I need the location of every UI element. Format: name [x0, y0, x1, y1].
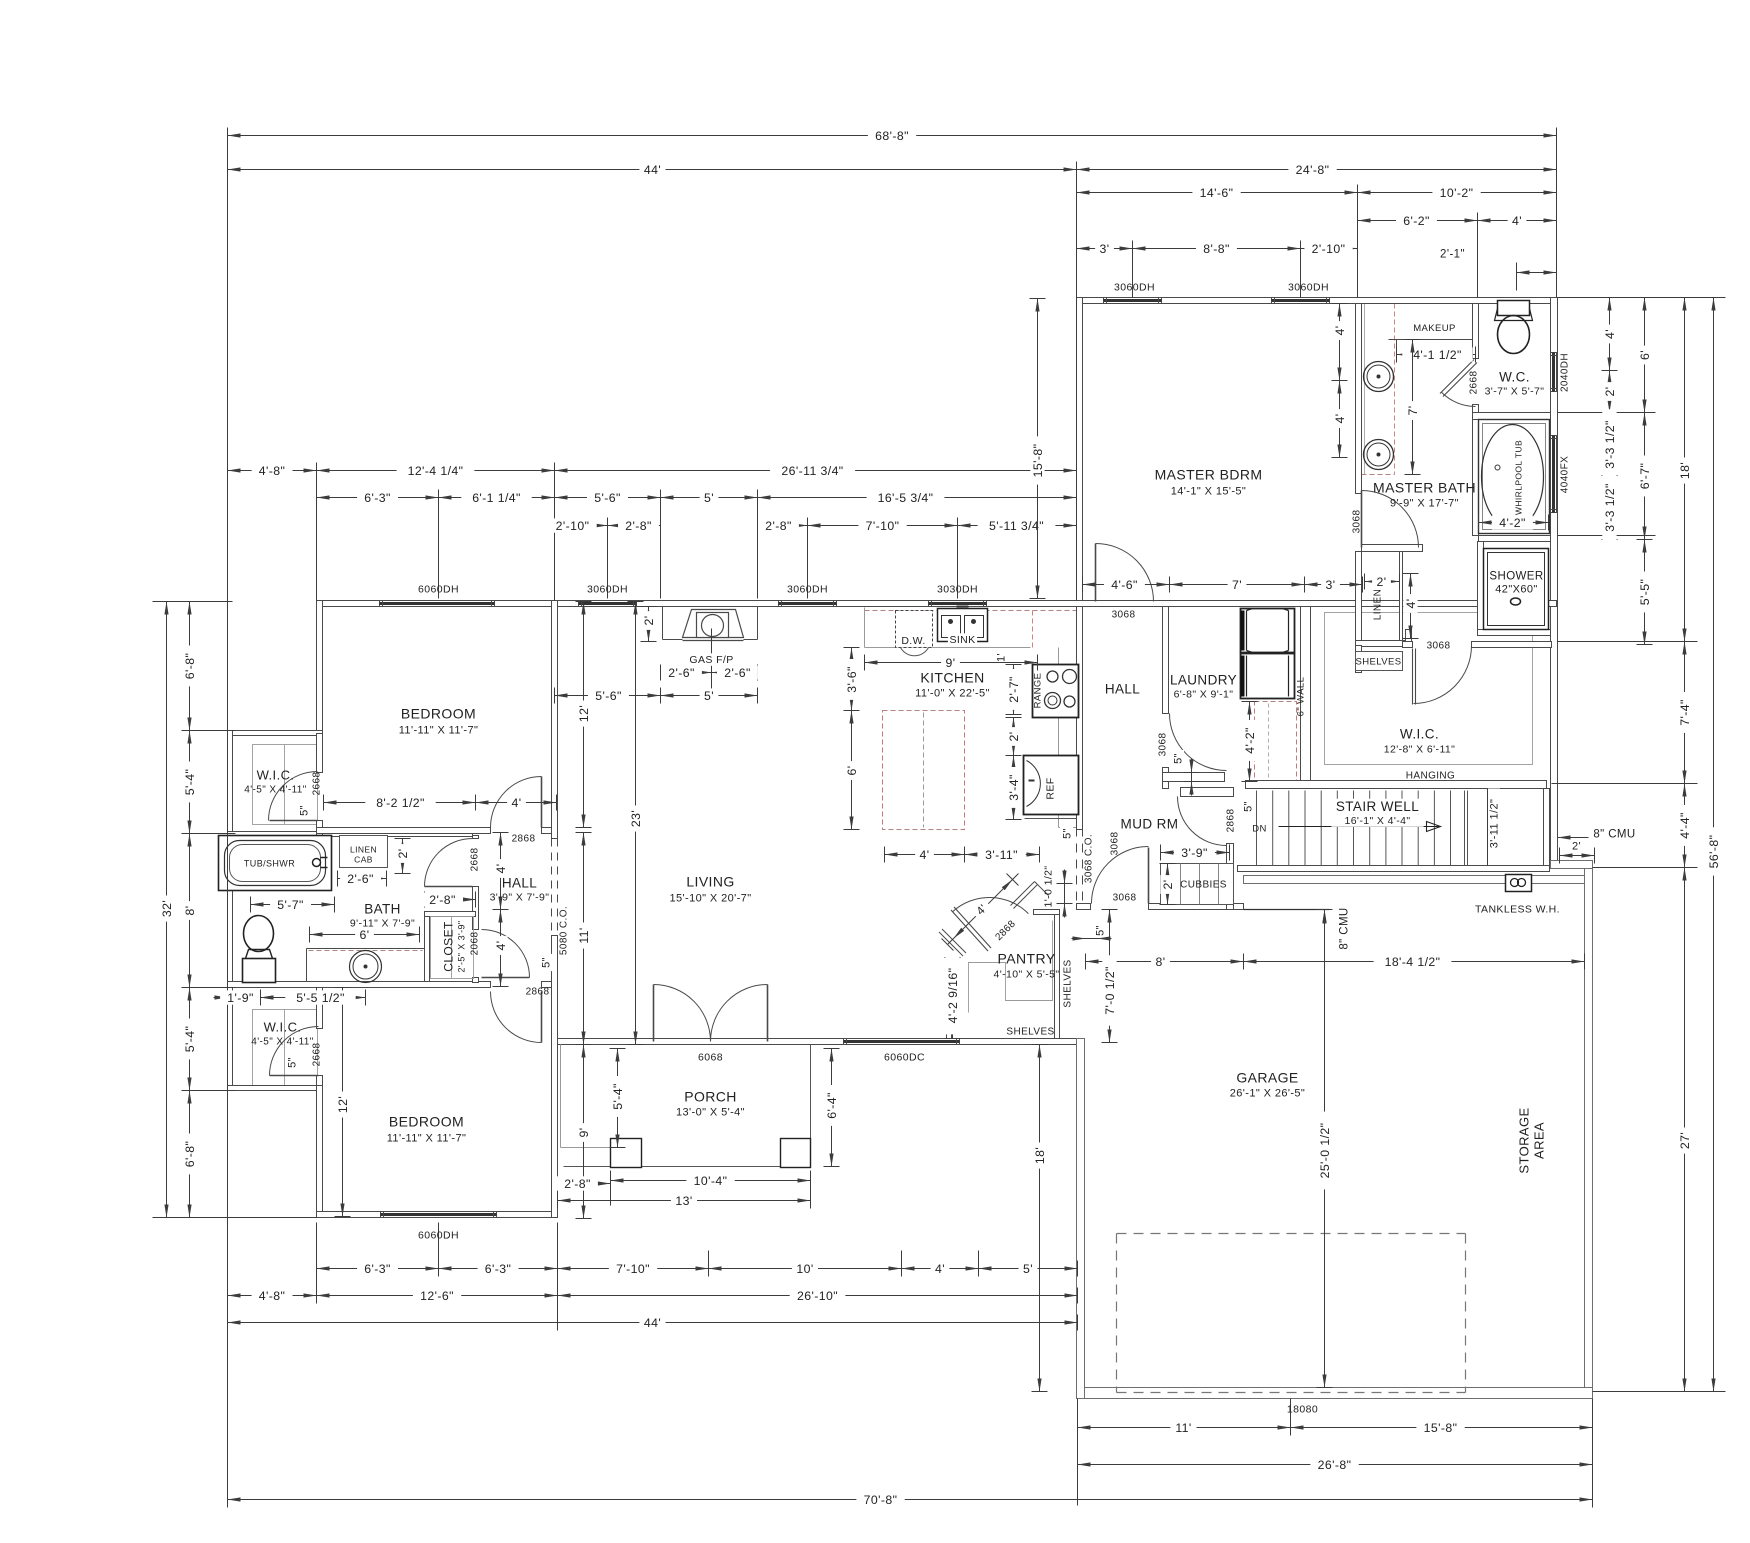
- svg-text:8': 8': [183, 906, 197, 916]
- door 2868 mud rm: [1178, 797, 1227, 846]
- whirlpool tub: [1479, 420, 1550, 534]
- window 3060DH living top 1: [579, 601, 637, 607]
- svg-text:4'-2": 4'-2": [1243, 727, 1257, 754]
- svg-text:11'-11" X 11'-7": 11'-11" X 11'-7": [399, 725, 479, 737]
- shower stall: [1484, 549, 1549, 630]
- svg-text:HALL: HALL: [502, 876, 537, 891]
- svg-text:5': 5': [1023, 1262, 1033, 1276]
- svg-text:2'-10": 2'-10": [1312, 242, 1346, 256]
- svg-text:2668: 2668: [470, 848, 481, 872]
- svg-text:8" CMU: 8" CMU: [1593, 829, 1635, 841]
- wall: WC left wall: [1473, 304, 1479, 359]
- wall: stair right wall: [1544, 789, 1550, 866]
- svg-text:BEDROOM: BEDROOM: [389, 1114, 464, 1130]
- svg-text:4': 4': [494, 864, 508, 874]
- svg-text:4'-2 9/16": 4'-2 9/16": [946, 968, 960, 1024]
- wall: stairwell bottom: [1238, 866, 1550, 872]
- svg-text:1'-0 1/2": 1'-0 1/2": [1043, 865, 1055, 907]
- svg-text:9'-11" X 7'-9": 9'-11" X 7'-9": [350, 918, 415, 930]
- dim 15'-8 vertical: [1037, 299, 1039, 599]
- svg-text:REF: REF: [1045, 777, 1057, 799]
- svg-text:SHELVES: SHELVES: [1063, 959, 1074, 1007]
- svg-text:2'-6": 2'-6": [668, 666, 695, 680]
- laundry counter (dashed): [1255, 702, 1297, 782]
- left column dims: [189, 602, 191, 731]
- linen cab box: [340, 836, 388, 868]
- tub dim: [1479, 522, 1549, 524]
- svg-text:2': 2': [642, 616, 656, 626]
- svg-text:BATH: BATH: [364, 902, 401, 917]
- svg-text:KITCHEN: KITCHEN: [920, 670, 984, 686]
- svg-text:26'-11 3/4": 26'-11 3/4": [781, 464, 843, 478]
- svg-text:6': 6': [1638, 350, 1652, 360]
- svg-text:MASTER BDRM: MASTER BDRM: [1155, 467, 1263, 483]
- svg-text:4': 4': [1333, 414, 1347, 424]
- svg-text:4'-5" X 4'-11": 4'-5" X 4'-11": [244, 785, 307, 796]
- svg-text:11': 11': [1175, 1421, 1191, 1435]
- window 3060DH living top 2: [779, 601, 837, 607]
- svg-text:26'-8": 26'-8": [1318, 1458, 1352, 1472]
- gas fireplace: [662, 607, 664, 640]
- svg-text:2668: 2668: [312, 772, 323, 796]
- washer: [1241, 609, 1295, 653]
- svg-text:W.I.C.: W.I.C.: [257, 768, 295, 783]
- svg-text:16'-5 3/4": 16'-5 3/4": [878, 491, 934, 505]
- svg-text:3'-4": 3'-4": [1007, 774, 1021, 801]
- refrigerator: [1024, 756, 1079, 815]
- wall: master bath south wall at linen: [1362, 545, 1423, 552]
- mudrm dims: [1161, 852, 1230, 854]
- svg-text:9': 9': [946, 656, 956, 670]
- wall: bedroomN bottom: [317, 828, 491, 834]
- master bdrm bottom dims: [1083, 584, 1170, 586]
- svg-text:5": 5": [286, 1057, 298, 1068]
- svg-text:7': 7': [1232, 578, 1242, 592]
- svg-text:5': 5': [704, 689, 714, 703]
- svg-text:CUBBIES: CUBBIES: [1180, 880, 1227, 891]
- svg-text:4': 4': [1333, 326, 1347, 336]
- misc labels: [688, 653, 736, 666]
- svg-text:5'-6": 5'-6": [595, 689, 622, 703]
- window 6060DC living bottom: [844, 1039, 960, 1045]
- door 2068 closet: [482, 930, 530, 978]
- wall: bedroomN left wall pieces at WIC door: [317, 734, 323, 773]
- svg-text:2868: 2868: [1226, 809, 1237, 833]
- svg-text:56'-8": 56'-8": [1707, 835, 1721, 869]
- wall: tub room left wall: [1473, 420, 1479, 536]
- svg-text:2': 2': [1572, 841, 1581, 853]
- extension lines porch posts: [610, 1171, 612, 1206]
- svg-text:27': 27': [1678, 1132, 1692, 1149]
- wall: master suite top exterior: [1077, 298, 1558, 304]
- svg-text:2668: 2668: [1469, 371, 1480, 395]
- door 2668 WC angled: [1440, 360, 1474, 394]
- svg-text:4': 4': [1404, 599, 1418, 609]
- svg-text:5": 5": [1172, 753, 1184, 764]
- svg-text:3': 3': [1100, 242, 1110, 256]
- svg-text:6" WALL: 6" WALL: [1296, 677, 1307, 717]
- room label stair well: [1335, 799, 1420, 815]
- wall: left wall at bath: [228, 837, 233, 986]
- wall: WIC-N bump bottom: [228, 832, 323, 837]
- window 6060DH bedroomS bottom: [381, 1212, 497, 1218]
- svg-text:9'-9" X 17'-7": 9'-9" X 17'-7": [1390, 498, 1459, 510]
- left 32' dim: [166, 602, 168, 1218]
- door 3068 master bdrm: [1096, 544, 1154, 602]
- svg-text:LINEN: LINEN: [350, 845, 377, 855]
- svg-text:5'-6": 5'-6": [594, 491, 621, 505]
- svg-text:42"X60": 42"X60": [1495, 583, 1537, 595]
- svg-text:12': 12': [336, 1096, 350, 1113]
- master WIC hanging line: [1325, 613, 1533, 765]
- wall: 3068 C.O. dashes in living wall: [1076, 828, 1078, 903]
- svg-text:TANKLESS W.H.: TANKLESS W.H.: [1475, 904, 1560, 916]
- svg-text:MAKEUP: MAKEUP: [1413, 323, 1456, 334]
- svg-text:32': 32': [160, 900, 174, 917]
- tankless water heater: [1506, 875, 1532, 892]
- wall: WC/tub divider: [1473, 413, 1551, 420]
- dim 14'-6 / 10'-2: [1077, 192, 1358, 194]
- window 3060DH master 2: [1272, 298, 1330, 304]
- svg-text:11': 11': [577, 927, 591, 943]
- dim 3' / 8'-8 / 2'-10: [1077, 248, 1133, 250]
- wall: bedroom wing right wall lower: [552, 936, 558, 1218]
- wall: left wing upper-left: [317, 601, 323, 734]
- svg-text:3068: 3068: [1158, 733, 1169, 757]
- svg-text:25'-0 1/2": 25'-0 1/2": [1318, 1123, 1332, 1179]
- wall: shelves wall below linen: [1356, 646, 1362, 673]
- svg-text:3060DH: 3060DH: [587, 584, 628, 596]
- svg-text:2': 2': [396, 849, 410, 859]
- svg-text:23': 23': [629, 810, 643, 827]
- extension lines top: [227, 129, 229, 1506]
- left wing interior dims: [324, 802, 476, 804]
- pantry diagonal 4ft: [948, 874, 1019, 945]
- wall: WIC top wall right of door: [1472, 642, 1552, 648]
- svg-text:2'-8": 2'-8": [564, 1177, 591, 1191]
- svg-text:6'-7": 6'-7": [1638, 463, 1652, 490]
- svg-text:4'-5" X 4'-11": 4'-5" X 4'-11": [251, 1037, 314, 1048]
- porch slab and posts: [560, 1045, 562, 1148]
- svg-text:2'-8": 2'-8": [625, 519, 652, 533]
- door 2868 bedroomS: [491, 992, 542, 1043]
- wall: main horizontal (exterior left wing / master divider): [317, 601, 1557, 607]
- svg-text:GAS F/P: GAS F/P: [689, 654, 733, 666]
- svg-text:3'-11": 3'-11": [985, 848, 1018, 862]
- wall: bath door wall piece + linen: [1356, 552, 1362, 647]
- wall: hall/bath interior x=472: [473, 836, 479, 839]
- wall: mudrm right wall: [1227, 844, 1234, 910]
- wall: garage bottom: [1085, 1388, 1593, 1399]
- small 5in dims kitchen wall: [1060, 825, 1073, 842]
- fireplace dims: [648, 607, 650, 642]
- wall: garage top: [1244, 876, 1593, 884]
- svg-text:9': 9': [577, 1128, 591, 1138]
- svg-text:6'-4": 6'-4": [825, 1092, 839, 1119]
- garage dims: [1086, 961, 1244, 963]
- pantry shelves line: [969, 921, 1053, 1013]
- svg-text:6'-3": 6'-3": [485, 1262, 512, 1276]
- svg-text:6'-2": 6'-2": [1403, 214, 1430, 228]
- svg-text:3'-11 1/2": 3'-11 1/2": [1488, 799, 1500, 849]
- wall: pantry top jog: [1034, 910, 1060, 915]
- wall: WIC-N bump left: [228, 731, 233, 837]
- svg-text:7'-10": 7'-10": [616, 1262, 650, 1276]
- dims left wing top row1: [228, 470, 317, 472]
- wall: master suite left: [1077, 298, 1083, 607]
- door 2668 WIC-S: [270, 1027, 319, 1076]
- svg-text:2868: 2868: [512, 834, 536, 845]
- window 3060DH master 1: [1104, 298, 1162, 304]
- wall: WIC bottom / stair top: [1246, 781, 1547, 789]
- svg-text:4': 4': [1512, 214, 1522, 228]
- range: [1033, 665, 1079, 718]
- svg-text:4': 4': [935, 1262, 945, 1276]
- svg-text:6060DC: 6060DC: [884, 1052, 925, 1064]
- svg-text:5'-5": 5'-5": [1638, 579, 1652, 606]
- dim 2'-1: [1517, 272, 1557, 274]
- svg-text:LAUNDRY: LAUNDRY: [1170, 673, 1237, 688]
- svg-text:PANTRY: PANTRY: [998, 951, 1056, 967]
- svg-text:18': 18': [1678, 462, 1692, 479]
- svg-text:7': 7': [1406, 406, 1420, 416]
- svg-text:6': 6': [360, 928, 370, 942]
- WIC-N inner line: [253, 745, 318, 825]
- wall: garage right: [1585, 861, 1593, 1399]
- room label shower: [1494, 569, 1539, 583]
- stairs treads: [1256, 791, 1258, 866]
- svg-text:16'-1" X 4'-4": 16'-1" X 4'-4": [1344, 815, 1410, 827]
- svg-text:8': 8': [1156, 955, 1166, 969]
- svg-text:3'-9" X 7'-9": 3'-9" X 7'-9": [490, 892, 550, 904]
- stair dims: [1487, 789, 1500, 859]
- kitchen sink: [938, 609, 988, 642]
- wall: mud rm bottom wall: [1077, 904, 1091, 910]
- shelves box WIC: [1356, 652, 1403, 671]
- svg-text:TUB/SHWR: TUB/SHWR: [244, 859, 295, 869]
- svg-text:2'-1": 2'-1": [1440, 249, 1465, 261]
- window 4040FX tub right: [1551, 436, 1557, 513]
- svg-text:3068: 3068: [1110, 832, 1121, 856]
- garage dim origin line: [1244, 909, 1330, 911]
- svg-text:1': 1': [996, 653, 1008, 662]
- kitchen counter outline: [864, 608, 866, 648]
- wall: shower left wall: [1478, 542, 1484, 630]
- window 6060DH bedroomN top: [380, 601, 495, 607]
- svg-text:12'-4 1/4": 12'-4 1/4": [408, 464, 464, 478]
- svg-text:6068: 6068: [698, 1052, 723, 1064]
- svg-text:2'-6": 2'-6": [347, 872, 374, 886]
- svg-text:6'-3": 6'-3": [364, 1262, 391, 1276]
- svg-text:2'-10": 2'-10": [556, 519, 590, 533]
- svg-text:5'-7": 5'-7": [277, 898, 304, 912]
- svg-text:WHIRLPOOL TUB: WHIRLPOOL TUB: [1514, 440, 1524, 515]
- svg-text:12': 12': [577, 705, 591, 722]
- right column dims: [1609, 298, 1611, 371]
- svg-text:3068 C.O.: 3068 C.O.: [1084, 834, 1095, 883]
- svg-text:13': 13': [675, 1194, 692, 1208]
- makeup counter corner: [1396, 340, 1398, 349]
- svg-text:STORAGE: STORAGE: [1517, 1107, 1532, 1173]
- svg-text:8" CMU: 8" CMU: [1339, 907, 1351, 949]
- door 6068 french doors living/porch: [654, 985, 711, 1042]
- svg-text:5": 5": [1094, 925, 1106, 936]
- wall: living bottom exterior: [558, 1039, 1078, 1045]
- svg-text:4'-8": 4'-8": [259, 464, 286, 478]
- wall: WIC right wall piece: [1406, 630, 1412, 646]
- window 3030DH kitchen top: [929, 601, 987, 607]
- svg-text:15'-8": 15'-8": [1031, 444, 1045, 478]
- svg-text:15'-8": 15'-8": [1424, 1421, 1458, 1435]
- stairs DN arrow: [1279, 826, 1441, 828]
- wall: stair top thin: [1246, 788, 1544, 790]
- wall: garage left: [1077, 1039, 1085, 1399]
- svg-text:4'-1 1/2": 4'-1 1/2": [1413, 348, 1462, 362]
- master bath vanity counter (dashed): [1394, 304, 1396, 475]
- wall: pantry right wall: [1055, 915, 1060, 1039]
- door 2668 WIC-N: [269, 772, 318, 821]
- door 2668 bath: [425, 839, 473, 887]
- svg-text:2068: 2068: [470, 932, 481, 956]
- svg-text:W.I.C.: W.I.C.: [264, 1020, 302, 1035]
- svg-text:14'-6": 14'-6": [1200, 186, 1234, 200]
- svg-text:3068: 3068: [1427, 641, 1451, 652]
- svg-text:HALL: HALL: [1105, 682, 1140, 697]
- wall: bath/bedroomS top wall: [228, 982, 491, 988]
- svg-text:3'-7" X 5'-7": 3'-7" X 5'-7": [1485, 386, 1545, 398]
- wall: shower bottom / WIC right top: [1478, 630, 1551, 636]
- svg-text:3060DH: 3060DH: [787, 584, 828, 596]
- svg-text:6'-3": 6'-3": [364, 491, 391, 505]
- svg-text:26'-10": 26'-10": [797, 1289, 838, 1303]
- closet inner + rod: [431, 917, 474, 979]
- svg-text:5": 5": [1061, 828, 1073, 839]
- svg-text:1'-9": 1'-9": [227, 991, 254, 1005]
- svg-text:4040FX: 4040FX: [1560, 456, 1571, 493]
- porch dims: [617, 1049, 619, 1148]
- extension lines bottom: [316, 1223, 318, 1303]
- linen dims: [1365, 581, 1400, 583]
- svg-text:6'-8" X 9'-1": 6'-8" X 9'-1": [1174, 689, 1234, 701]
- svg-text:12'-8" X 6'-11": 12'-8" X 6'-11": [1384, 744, 1456, 756]
- door 3068 master WIC: [1414, 646, 1472, 704]
- svg-text:SHELVES: SHELVES: [1356, 657, 1402, 668]
- dims left wing top row3: [555, 525, 608, 527]
- wall: 5080 C.O. dashes: [551, 839, 553, 936]
- svg-text:68'-8": 68'-8": [875, 129, 909, 143]
- wall: pantry angled corner: [939, 929, 966, 956]
- dim 44' / 24'-8 top: [228, 169, 1077, 171]
- wall: closet left+top: [425, 912, 430, 982]
- svg-text:GARAGE: GARAGE: [1236, 1070, 1298, 1086]
- hall small dims: [500, 833, 502, 910]
- svg-text:8'-2 1/2": 8'-2 1/2": [376, 796, 425, 810]
- svg-text:4': 4': [1603, 329, 1617, 339]
- door 3068 master bath: [1362, 491, 1419, 548]
- svg-text:3030DH: 3030DH: [937, 584, 978, 596]
- dim 68'-8 top: [228, 135, 1557, 137]
- tub/shower bath1: [219, 836, 332, 891]
- svg-text:CLOSET: CLOSET: [442, 921, 456, 972]
- svg-text:4': 4': [512, 796, 522, 810]
- door 3068 mudrm-kitchen: [1092, 847, 1149, 904]
- svg-text:3'-9": 3'-9": [1181, 846, 1208, 860]
- svg-text:D.W.: D.W.: [901, 635, 925, 647]
- svg-text:12'-6": 12'-6": [420, 1289, 454, 1303]
- dryer: [1241, 654, 1295, 699]
- wall: WIC-N bump top: [228, 731, 323, 736]
- extension lines right: [1558, 297, 1726, 299]
- svg-text:4': 4': [494, 941, 508, 951]
- svg-text:5'-4": 5'-4": [611, 1083, 625, 1110]
- WIC-S inner line: [253, 1010, 318, 1086]
- svg-text:PORCH: PORCH: [684, 1089, 737, 1105]
- svg-text:2868: 2868: [526, 987, 550, 998]
- svg-text:3068: 3068: [1113, 893, 1137, 904]
- wall: WIC-S left: [228, 988, 233, 1089]
- wall: master bath/bdrm divider: [1356, 304, 1362, 494]
- svg-text:5'-4": 5'-4": [183, 1026, 197, 1053]
- svg-text:3068: 3068: [1112, 610, 1136, 621]
- bath1 sink: [350, 951, 382, 983]
- svg-text:5'-5 1/2": 5'-5 1/2": [296, 991, 345, 1005]
- dishwasher dashed: [896, 611, 933, 648]
- svg-text:DN: DN: [1252, 824, 1267, 835]
- laundry dim: [1249, 702, 1251, 782]
- dim 6'-2 / 4': [1358, 220, 1478, 222]
- wall: WIC-S bottom: [228, 1086, 323, 1091]
- wall: living/garage shared wall upper: [1077, 607, 1083, 830]
- svg-text:4'-8": 4'-8": [259, 1289, 286, 1303]
- wall: garage step right upper: [1551, 861, 1593, 869]
- svg-text:6060DH: 6060DH: [418, 1230, 459, 1242]
- wall: bath top wall: [323, 832, 473, 837]
- svg-text:2': 2': [1007, 732, 1021, 742]
- door 3068 laundry: [1170, 714, 1227, 771]
- wall: hall/laundry wall: [1163, 607, 1169, 714]
- svg-text:18': 18': [1033, 1147, 1047, 1164]
- master bath vanity dims: [1339, 304, 1341, 381]
- svg-text:MASTER BATH: MASTER BATH: [1373, 480, 1476, 496]
- bath-1 vanity counter: [307, 948, 425, 950]
- svg-text:11'-11" X 11'-7": 11'-11" X 11'-7": [387, 1133, 467, 1145]
- svg-text:6'-1 1/4": 6'-1 1/4": [472, 491, 521, 505]
- svg-text:5": 5": [298, 805, 310, 816]
- svg-text:3060DH: 3060DH: [1114, 282, 1155, 294]
- svg-text:SHELVES: SHELVES: [1006, 1027, 1054, 1038]
- kitchen island (dashed): [883, 711, 965, 830]
- svg-text:7'-4": 7'-4": [1678, 699, 1692, 726]
- wall: bedroom wing right wall upper: [552, 601, 558, 839]
- svg-text:44': 44': [644, 1316, 661, 1330]
- cubbies: [1161, 864, 1234, 905]
- kitchen dims: [865, 662, 1038, 664]
- svg-text:6'-8": 6'-8": [183, 653, 197, 680]
- svg-text:6'-8": 6'-8": [183, 1141, 197, 1168]
- svg-text:3068: 3068: [1352, 510, 1363, 534]
- svg-text:4'-2": 4'-2": [1499, 516, 1526, 530]
- svg-text:6': 6': [845, 766, 859, 776]
- svg-text:5080 C.O.: 5080 C.O.: [559, 906, 570, 955]
- svg-text:15'-10" X 20'-7": 15'-10" X 20'-7": [669, 893, 751, 905]
- svg-text:7'-10": 7'-10": [866, 519, 900, 533]
- svg-text:26'-1" X 26'-5": 26'-1" X 26'-5": [1230, 1088, 1306, 1100]
- svg-text:18'-4 1/2": 18'-4 1/2": [1385, 955, 1441, 969]
- svg-text:10'-4": 10'-4": [694, 1174, 728, 1188]
- svg-text:4'-6": 4'-6": [1111, 578, 1138, 592]
- svg-text:4': 4': [920, 848, 930, 862]
- svg-text:2': 2': [1603, 387, 1617, 397]
